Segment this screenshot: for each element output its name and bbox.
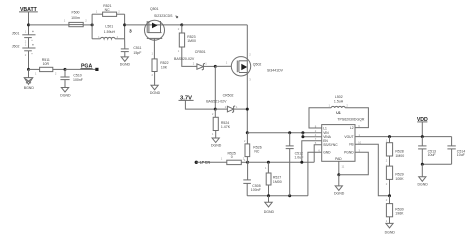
ground DGND under C510 [60,88,71,98]
ground DGND under R524 [211,138,222,148]
svg-text:1M00: 1M00 [273,180,282,184]
svg-text:F500: F500 [72,11,80,15]
svg-text:BAS521-02V: BAS521-02V [206,100,227,104]
capacitor C510 [60,69,83,87]
svg-text:BAS520-02V: BAS520-02V [174,57,195,61]
svg-text:J502: J502 [12,45,20,49]
svg-text:100nF: 100nF [251,188,261,192]
node C510 junction [64,68,67,71]
wire GND pin to rail [308,152,322,196]
node VINA drop junction [301,131,304,134]
svg-text:DGND: DGND [60,94,71,98]
svg-text:DGND: DGND [264,210,275,214]
capacitor C513 [418,137,436,165]
resistor R521 [96,4,121,16]
svg-text:SS/SYNC: SS/SYNC [323,143,338,147]
node VDD junction [421,135,424,138]
resistor R530 [386,196,404,224]
svg-text:196K: 196K [395,212,404,216]
node rail C512 junction [288,194,291,197]
wire J502 to R511 row [28,51,30,70]
capacitor C505 [243,162,260,196]
capacitor C514 [447,137,465,165]
resistor R522 [152,52,169,78]
capacitor C511 [121,39,142,57]
svg-text:NC: NC [105,8,111,12]
wire to BGND [28,69,30,77]
svg-text:L501: L501 [105,25,113,29]
wire 3.7V to CR502 row [185,100,215,109]
svg-text:R529: R529 [395,173,403,177]
resistor R527 [265,162,282,196]
svg-text:100K: 100K [395,177,404,181]
wire EN pin [302,141,322,163]
wire Q501 gate down [153,40,155,59]
inductor L502 [329,95,349,108]
svg-text:NC: NC [254,150,260,154]
svg-text:10uF: 10uF [428,153,436,157]
svg-text:1.47K: 1.47K [221,125,231,129]
svg-text:CR502: CR502 [223,93,234,97]
connector J502 [12,43,36,57]
wire PGA net [65,68,95,70]
resistor R526 [244,133,262,163]
transistor Q501 [145,7,178,40]
wire top rail to R521 [92,13,103,15]
resistor R524 [212,109,231,136]
node R511 row junction [27,68,30,71]
ground BGND [24,78,35,91]
svg-text:TPS62030DGQR: TPS62030DGQR [337,117,365,121]
wire C514 bottom return [422,163,451,165]
svg-text:L502: L502 [335,95,343,99]
svg-text:BGND: BGND [24,86,35,90]
svg-text:L1: L1 [323,126,327,130]
node CR502 bus junction [246,108,249,111]
wire ground rail [247,195,308,197]
net label VBATT [19,7,38,13]
node CR502 left junction [214,108,217,111]
wire PAD to junction [338,161,340,175]
transistor Q502 [226,52,284,81]
svg-text:DGND: DGND [334,192,345,196]
resistor R529 [386,163,404,195]
resistor R511 [35,58,57,75]
wire node to Q501 [125,24,145,26]
svg-text:DGND: DGND [150,91,161,95]
wire R525 to EN row junction [241,161,247,163]
wire junction to R511 [29,68,40,70]
wire CR501 to junction [203,65,215,67]
svg-text:Q501: Q501 [150,7,159,11]
node EN row left junction [246,161,249,164]
port PGA terminal [95,68,98,71]
wire junction down to CR502 row [214,66,216,109]
fuse F500 [64,11,88,27]
resistor R525 [221,151,245,164]
ground DGND under PAD [334,175,345,196]
node C512 top junction [288,131,291,134]
svg-text:R522: R522 [160,61,168,65]
node VINA junction [301,135,304,138]
node right of R521/L501 [123,23,126,26]
wire VINA drop [303,133,322,137]
svg-text:1M00: 1M00 [395,154,404,158]
svg-text:100nF: 100nF [73,78,83,82]
svg-text:J501: J501 [12,31,20,35]
node EN drop junction [300,161,303,164]
wire EN row [248,161,315,163]
node VBATT junction [27,23,30,26]
wire R524 to DGND [215,131,217,139]
inductor L501 [92,25,125,39]
svg-text:R527: R527 [273,175,281,179]
wire L502 left to L1 pin [309,108,331,128]
svg-text:VOUT: VOUT [344,135,353,139]
wire FB pin loop [355,144,390,196]
wire VBATT to F500 [29,24,69,26]
diode CR502 [206,93,238,112]
net label VDD [417,117,428,123]
svg-text:10R: 10R [43,62,50,66]
wire junction to Q502 [215,65,237,67]
node R528 top junction [388,135,391,138]
svg-text:10uF: 10uF [457,153,465,157]
node output cap ground junction [421,163,424,166]
wire R521 to right vertical [117,13,125,15]
wire right vertical of parallel pair [124,14,126,39]
wire J501 to J502 [28,38,30,48]
svg-text:L2: L2 [350,126,354,130]
svg-text:15pF: 15pF [133,51,141,55]
svg-text:C511: C511 [133,46,141,50]
svg-text:100m: 100m [71,16,80,20]
wire VIN bus row [247,132,321,134]
svg-text:1M00: 1M00 [187,39,196,43]
svg-text:GND: GND [323,151,331,155]
wire Q501 drain to node [165,24,182,26]
svg-text:SI2323CDS: SI2323CDS [154,14,173,18]
wire SS/SYNC pin [314,145,322,163]
svg-text:PGND: PGND [344,151,354,155]
ground DGND under C513 [418,164,429,186]
svg-text:3: 3 [129,28,132,33]
svg-text:CR501: CR501 [195,50,206,54]
wire VOUT row [355,136,452,138]
resistor R523 [178,25,196,53]
wire CR502 to bus [234,108,248,110]
ground DGND under R530 [385,223,396,234]
wire VDD drop [421,122,423,137]
wire F500 to left node [83,24,92,26]
svg-text:U1: U1 [336,111,341,115]
capacitor C512 [286,133,304,196]
wire Q502 bus vertical [246,25,248,133]
wire LP_EN to R525 [196,161,227,163]
wire drain node to corner [182,24,248,26]
svg-text:SI3441DV: SI3441DV [267,68,284,72]
wire PGND pin loop [339,152,369,175]
wire R522 to DGND [154,72,156,86]
wire R511 to C510 junction [53,68,65,70]
svg-text:1.59uH: 1.59uH [104,30,116,34]
diode CR501 [174,50,207,70]
node PAD junction [337,173,340,176]
ground DGND under R522 [150,85,161,95]
ground DGND under rail [264,196,275,214]
svg-text:10K: 10K [161,66,168,70]
node CR501 junction [214,65,217,68]
svg-text:C510: C510 [73,73,81,77]
net label 3.7V [179,96,194,102]
net label PGA [81,64,93,70]
op-amp U1 (IC TPS62030DGQR) [322,111,365,161]
svg-text:0: 0 [231,155,233,159]
wire L502 right to L2 pin [345,108,368,128]
ground DGND under C511 [120,57,131,67]
svg-text:PAD: PAD [335,157,342,161]
node bus corner junction [246,131,249,134]
wire VBATT vertical [28,12,30,35]
wire R523 to CR501 [182,47,197,66]
node FB junction [388,194,391,197]
node rail R527 junction [267,194,270,197]
connector J501 [12,29,36,43]
wire junction to CR502 [215,108,227,110]
node Q501 drain junction [180,23,183,26]
svg-text:DGND: DGND [120,63,131,67]
svg-text:DGND: DGND [211,144,222,148]
svg-text:R528: R528 [395,150,403,154]
node left of R521/L501 [91,23,94,26]
resistor R528 [386,137,404,167]
svg-text:DGND: DGND [418,183,429,187]
svg-text:1.5uH: 1.5uH [334,100,344,104]
svg-text:Q502: Q502 [253,62,262,66]
port LP_EN [195,160,211,164]
wire left vertical of parallel pair [91,14,93,39]
svg-text:DGND: DGND [385,230,396,234]
node R527 top junction [267,161,270,164]
